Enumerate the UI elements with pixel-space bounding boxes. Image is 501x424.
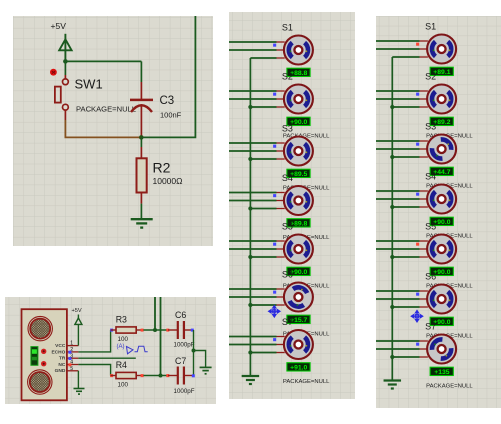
svg-text:10000Ω: 10000Ω	[153, 176, 183, 186]
terminal square S3	[416, 143, 419, 146]
resistor R4	[110, 374, 113, 377]
probe (A) annotation	[127, 346, 148, 354]
wire junction to C3 top	[65, 60, 141, 62]
svg-text:S3: S3	[425, 122, 436, 132]
junction servo S5	[390, 255, 394, 259]
vertical ground bus	[391, 57, 393, 380]
terminal square S6	[273, 291, 276, 294]
node junction C3 bottom	[139, 135, 144, 140]
servo S5 pins	[420, 240, 428, 242]
junction servo S7	[248, 350, 252, 354]
wire junction right and up to top edge	[141, 16, 195, 137]
terminal square S7	[273, 338, 276, 341]
svg-text:C6: C6	[175, 310, 186, 320]
resistor R3	[110, 329, 113, 332]
panel: servo column 1	[229, 12, 355, 399]
servo S2	[284, 85, 313, 114]
terminal square S1	[273, 44, 276, 47]
wire TR to probe	[78, 357, 135, 359]
svg-text:S4: S4	[282, 173, 293, 183]
wire C3 top vertical	[140, 61, 142, 82]
junction servo S3	[248, 157, 252, 161]
servo S2 pins	[420, 90, 428, 92]
servo S1	[284, 36, 313, 65]
ground symbol right	[200, 366, 212, 368]
servo S7 pins	[420, 340, 428, 342]
pin stubs	[67, 345, 79, 347]
sensor body box	[22, 309, 67, 400]
svg-text:R4: R4	[116, 360, 127, 370]
wire NC to R4 left	[78, 365, 110, 376]
junction servo S6	[248, 303, 252, 307]
transducer bottom	[28, 370, 52, 394]
svg-text:S4: S4	[425, 172, 436, 182]
display S2 value	[287, 117, 310, 125]
terminal square S1	[416, 43, 419, 46]
svg-text:TR: TR	[59, 356, 66, 362]
servo S5 wires	[376, 240, 420, 242]
wire SW1 bottom to node (brown)	[65, 120, 140, 137]
servo S6	[427, 285, 456, 314]
svg-text:SW1: SW1	[75, 77, 103, 92]
display S7 value	[430, 367, 453, 375]
servo S4 wires	[229, 192, 277, 194]
servo S2	[427, 85, 456, 114]
servo S4	[427, 185, 456, 214]
servo S4 wires	[376, 190, 420, 192]
servo S1	[427, 35, 456, 64]
terminal square S2	[416, 93, 419, 96]
svg-text:100nF: 100nF	[160, 111, 182, 120]
servo S4 pins	[420, 190, 428, 192]
junction servo S4	[248, 206, 252, 210]
panel: switch debounce schematic	[13, 16, 213, 246]
junction servo S4	[390, 205, 394, 209]
servo S3 wires	[229, 142, 277, 144]
terminal square S4	[416, 193, 419, 196]
servo S4	[284, 186, 313, 215]
ground symbol	[242, 375, 260, 377]
servo S3 wires	[376, 140, 420, 142]
servo S7	[284, 330, 313, 359]
svg-text:S2: S2	[282, 72, 293, 82]
servo S6 pins	[277, 288, 285, 290]
svg-text:S6: S6	[282, 270, 293, 280]
terminal square S6	[416, 293, 419, 296]
servo S3 pins	[277, 142, 285, 144]
node junction below +5V	[63, 59, 68, 64]
servo S5	[284, 235, 313, 264]
svg-text:+5V: +5V	[51, 21, 67, 31]
servo S2 wires	[229, 90, 277, 92]
servo S7	[427, 335, 456, 364]
ground symbol sensor	[74, 388, 85, 390]
svg-text:+91.0: +91.0	[290, 365, 307, 372]
svg-text:C3: C3	[160, 95, 175, 107]
svg-text:+135: +135	[434, 369, 450, 376]
capacitor C3	[130, 82, 153, 137]
switch SW1 toggle marker	[50, 69, 57, 76]
display S3 value	[287, 169, 310, 177]
svg-text:1000pF: 1000pF	[174, 388, 195, 395]
servo S3 pins	[420, 140, 428, 142]
servo S5	[427, 235, 456, 264]
servo S7 wires	[376, 340, 420, 342]
servo S1 wires	[229, 41, 277, 43]
terminal squares pins 2,3 blue, 4 red	[68, 351, 71, 354]
svg-text:S7: S7	[425, 322, 436, 332]
terminal square S3	[273, 145, 276, 148]
junction servo S2	[248, 105, 252, 109]
servo S3	[427, 135, 456, 164]
svg-text:(A): (A)	[117, 344, 125, 350]
display S4 value	[430, 217, 453, 225]
svg-text:R3: R3	[116, 315, 127, 325]
display S5 value	[430, 267, 453, 275]
display S1 value	[287, 68, 310, 76]
wire ECHO to R3 left	[78, 330, 110, 352]
svg-text:ECHO: ECHO	[51, 349, 65, 355]
blue crosshair marker	[269, 306, 281, 318]
junction servo S3	[390, 155, 394, 159]
svg-text:S6: S6	[425, 272, 436, 282]
servo S5 pins	[277, 240, 285, 242]
servo S7 pins	[277, 336, 285, 338]
red LED dot 1	[41, 349, 46, 354]
servo S4 pins	[277, 192, 285, 194]
junction servo S2	[390, 105, 394, 109]
servo S1 pins	[420, 40, 428, 42]
terminal square S5	[273, 243, 276, 246]
servo S2 pins	[277, 90, 285, 92]
servo S6 wires	[376, 290, 420, 292]
svg-text:100: 100	[118, 381, 129, 388]
switch SW1	[55, 75, 68, 120]
red LED dot 2	[41, 361, 46, 366]
panel: servo column 2	[376, 16, 501, 408]
svg-text:PACKAGE=NULL: PACKAGE=NULL	[76, 104, 136, 113]
svg-text:100: 100	[118, 336, 129, 343]
svg-text:5: 5	[70, 366, 73, 372]
svg-text:1: 1	[70, 341, 73, 347]
panel: ultrasonic sensor schematic	[5, 297, 216, 404]
wire C6 right down to C7 right	[193, 330, 195, 376]
svg-text:S1: S1	[425, 22, 436, 32]
vertical bus 1 from top to R3 row	[154, 297, 156, 330]
indicator bar	[31, 347, 38, 366]
wire R4 to C7	[143, 375, 168, 377]
servo S6	[284, 283, 313, 312]
svg-text:GND: GND	[55, 368, 66, 374]
svg-text:PACKAGE=NULL: PACKAGE=NULL	[283, 379, 330, 385]
junction servo S6	[390, 305, 394, 309]
display S2 value	[430, 117, 453, 125]
resistor R2	[140, 137, 142, 147]
terminal square S5	[416, 243, 419, 246]
svg-text:NC: NC	[58, 362, 65, 368]
wire R3 to C6	[143, 329, 168, 331]
svg-text:PACKAGE=NULL: PACKAGE=NULL	[426, 384, 473, 390]
servo S1 pins	[277, 41, 285, 43]
servo S1 wires	[376, 40, 420, 42]
vertical bus 2 from top to R4 row	[160, 297, 162, 376]
svg-text:+5V: +5V	[72, 308, 82, 314]
power +5V symbol	[59, 34, 71, 61]
terminal square S4	[273, 194, 276, 197]
terminal square S7	[416, 343, 419, 346]
servo S3	[284, 137, 313, 166]
display S4 value	[287, 219, 310, 227]
svg-text:S5: S5	[282, 222, 293, 232]
display S3 value	[430, 167, 453, 175]
ground symbol	[384, 379, 402, 381]
junction servo S5	[248, 255, 252, 259]
wire GND pin down	[77, 371, 79, 389]
svg-text:S1: S1	[282, 23, 293, 33]
servo S5 wires	[229, 240, 277, 242]
vertical ground bus	[249, 58, 251, 376]
capacitor C6	[168, 329, 177, 331]
junction servo S7	[390, 355, 394, 359]
servo S6 wires	[229, 288, 277, 290]
wire SW1 top	[64, 61, 66, 75]
blue crosshair marker	[411, 310, 423, 322]
display S1 value	[430, 67, 453, 75]
svg-text:C7: C7	[175, 356, 186, 366]
display S5 value	[287, 267, 310, 275]
servo S2 wires	[376, 90, 420, 92]
display S7 value	[287, 363, 310, 371]
svg-text:S3: S3	[282, 124, 293, 134]
svg-text:S2: S2	[425, 72, 436, 82]
display S6 value	[430, 317, 453, 325]
ground symbol P1	[131, 218, 153, 220]
servo S6 pins	[420, 290, 428, 292]
svg-text:S5: S5	[425, 222, 436, 232]
display S6 value	[287, 315, 310, 323]
wire to right ground	[194, 351, 206, 368]
svg-text:1000pF: 1000pF	[174, 342, 195, 349]
servo S7 wires	[229, 336, 277, 338]
svg-text:VCC: VCC	[55, 343, 66, 349]
capacitor C7	[168, 375, 177, 377]
svg-text:S7: S7	[282, 317, 293, 327]
svg-text:R2: R2	[153, 160, 171, 176]
transducer top	[28, 316, 52, 340]
terminal square S2	[273, 93, 276, 96]
